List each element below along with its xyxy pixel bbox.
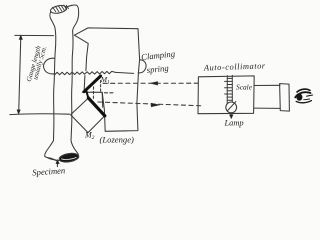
scale ruler [225, 75, 233, 103]
observer eye sketch [295, 89, 312, 103]
clamp block [74, 28, 139, 131]
short dashed mark right of M1 [105, 92, 114, 94]
svg-text:(Lozenge): (Lozenge) [100, 135, 135, 145]
specimen pointer arrow [56, 160, 59, 167]
svg-text:Lamp: Lamp [224, 119, 244, 128]
auto-collimator box [198, 76, 254, 114]
bone bottom condyle (dark ellipse) [48, 152, 80, 163]
lozenge M2 [71, 98, 105, 133]
svg-text:spring: spring [146, 63, 170, 75]
clamping spring right loop [138, 60, 146, 73]
clamping spring zigzag [55, 71, 116, 74]
label: Clamping spring [141, 48, 176, 75]
specimen bone outline [45, 12, 61, 161]
eyepiece tube [254, 85, 280, 108]
svg-text:M1: M1 [100, 75, 110, 85]
svg-text:Scale: Scale [236, 83, 253, 92]
gauge-length dimension line [17, 35, 22, 114]
dashed vertical link M1-M2 [92, 87, 94, 100]
clamping spring left loop [44, 58, 55, 74]
dashed vertical link M1-ray2 [100, 81, 102, 92]
lamp pointer arrow [229, 113, 233, 119]
lamp [226, 102, 237, 113]
dimension extension tick (top) [15, 34, 54, 36]
bone top cut face (hatched ellipse) [50, 4, 69, 14]
label: Gauge length usually 5cm (rotated) [26, 45, 49, 83]
mirror M1 [84, 76, 101, 92]
svg-text:Auto-collimator: Auto-collimator [203, 61, 266, 72]
dashed ray upper (to scale) [103, 82, 198, 86]
svg-text:Specimen: Specimen [32, 165, 66, 177]
mirror M2 link [86, 91, 88, 98]
eyepiece plate [280, 84, 290, 112]
dashed ray lower (from lamp) [98, 102, 202, 107]
specimen bone right edge [67, 5, 79, 154]
dimension extension tick (bottom) [10, 113, 70, 116]
svg-text:M2: M2 [84, 131, 95, 142]
wire from zigzag to right loop [116, 72, 134, 73]
svg-text:Clamping: Clamping [141, 48, 176, 62]
